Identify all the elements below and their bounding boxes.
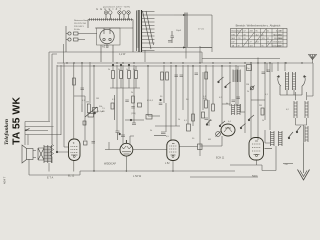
svg-text:215: 215: [238, 38, 241, 40]
svg-text:Netzanschluss: Netzanschluss: [74, 19, 89, 22]
svg-text:1M: 1M: [246, 84, 249, 86]
svg-text:Bereich: Bereich: [232, 31, 239, 33]
svg-text:96: 96: [256, 31, 258, 33]
svg-text:4M: 4M: [208, 139, 211, 141]
svg-text:AZ 12: AZ 12: [102, 45, 109, 49]
svg-text:4k: 4k: [226, 103, 228, 105]
svg-text:MW: MW: [232, 38, 236, 40]
svg-text:50 Hz: 50 Hz: [74, 29, 80, 31]
svg-text:5000: 5000: [252, 175, 258, 178]
svg-text:68: 68: [244, 34, 246, 36]
svg-text:16μF: 16μF: [176, 30, 182, 32]
svg-text:17 cm: 17 cm: [198, 29, 204, 31]
svg-text:1k: 1k: [178, 119, 180, 121]
svg-text:1k: 1k: [262, 120, 264, 122]
svg-text:Telefunken: Telefunken: [4, 119, 10, 145]
svg-text:3k: 3k: [133, 69, 135, 71]
svg-text:6...16: 6...16: [276, 31, 282, 33]
svg-text:112: 112: [256, 34, 259, 36]
svg-text:1,2 W: 1,2 W: [119, 53, 126, 56]
svg-text:WIDDICAP: WIDDICAP: [104, 162, 116, 165]
svg-text:L 52 W: L 52 W: [133, 174, 142, 178]
svg-text:1k: 1k: [126, 69, 128, 71]
svg-text:(170): (170): [131, 113, 136, 115]
svg-text:5k: 5k: [118, 69, 120, 71]
svg-text:110 125 150: 110 125 150: [74, 23, 87, 25]
svg-text:2M: 2M: [259, 105, 262, 107]
svg-text:164: 164: [256, 42, 259, 44]
svg-text:2k: 2k: [131, 92, 133, 94]
svg-text:ECH 11: ECH 11: [216, 157, 225, 160]
svg-text:TA 55 WK: TA 55 WK: [11, 97, 23, 145]
svg-text:1000-2000: 1000-2000: [272, 45, 282, 47]
svg-text:83: 83: [244, 38, 246, 40]
svg-text:LW: LW: [232, 42, 235, 44]
svg-text:77: 77: [250, 42, 252, 44]
svg-text:EL 12: EL 12: [68, 175, 75, 178]
svg-text:580-2000: 580-2000: [274, 38, 283, 40]
svg-text:Bereich: Wellenbereiche u. Abg: Bereich: Wellenbereiche u. Abgleich: [236, 24, 281, 28]
svg-text:5k: 5k: [150, 130, 152, 132]
svg-text:40: 40: [262, 34, 264, 36]
svg-text:31: 31: [267, 31, 269, 33]
svg-text:E T A: E T A: [47, 176, 54, 180]
svg-text:118: 118: [250, 45, 253, 47]
svg-text:50k: 50k: [203, 98, 206, 100]
svg-text:3k: 3k: [210, 120, 212, 122]
svg-text:220 240 V: 220 240 V: [74, 26, 85, 28]
svg-text:1M: 1M: [96, 98, 99, 100]
svg-text:2k: 2k: [108, 69, 110, 71]
svg-text:39: 39: [238, 45, 240, 47]
svg-text:57: 57: [244, 31, 246, 33]
svg-text:gezeichnet f. 220 V ~ 50 Hz: gezeichnet f. 220 V ~ 50 Hz: [103, 6, 130, 9]
svg-text:129: 129: [262, 38, 265, 40]
svg-text:85: 85: [262, 45, 264, 47]
svg-text:208: 208: [250, 31, 253, 33]
svg-text:KW: KW: [232, 34, 235, 36]
svg-text:52: 52: [267, 38, 269, 40]
svg-text:L 52: L 52: [165, 162, 170, 165]
svg-text:4/54 T: 4/54 T: [3, 176, 7, 184]
svg-text:1M: 1M: [86, 102, 89, 104]
svg-text:48: 48: [267, 42, 269, 44]
svg-text:200-580: 200-580: [274, 34, 282, 36]
svg-text:2k: 2k: [247, 91, 249, 93]
